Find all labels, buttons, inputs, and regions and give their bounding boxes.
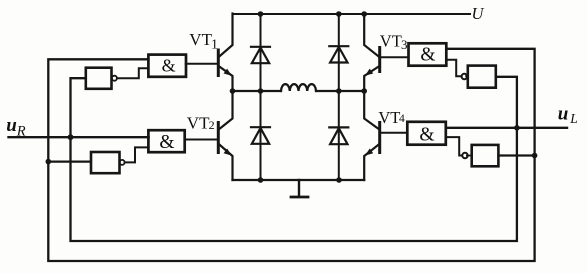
- label VT4: [378, 108, 405, 127]
- wire: top supply rail to U: [233, 13, 471, 15]
- inverter N4 (bottom-right NOT box): [472, 145, 499, 166]
- wire: VT1 emitter to mid rail: [219, 67, 232, 92]
- svg-text:VT: VT: [378, 108, 400, 127]
- svg-text:&: &: [159, 132, 174, 153]
- inverter N1 (top-left NOT box): [86, 68, 112, 89]
- node: bottom rail / VD2: [258, 177, 264, 183]
- node: mid rail / right diodes: [336, 88, 342, 94]
- wire: AND4 output to VT4 base: [381, 132, 408, 134]
- diode VD4 (lower-right): [329, 127, 348, 144]
- AND gate D3 (top-right, "&"): [409, 43, 447, 65]
- wire: AND3 lower input to N3 bubble: [446, 60, 461, 76]
- wire: INV2 input branch: [48, 161, 91, 163]
- VT3 emitter arrow: [365, 69, 373, 76]
- label VT2: [187, 113, 215, 132]
- wire: right diode column: [338, 14, 340, 180]
- AND gate D2 (bottom-left, "&"): [148, 130, 184, 152]
- node: top rail / VD3: [336, 11, 342, 17]
- node: uR to inner loop junction: [68, 134, 74, 140]
- node: top rail / VD1: [258, 11, 264, 17]
- node: mid rail / VT3-VT4: [361, 88, 367, 94]
- svg-text:u: u: [558, 103, 569, 124]
- wire: VT2 emitter to bottom rail: [219, 145, 232, 181]
- inverter N3 (top-right NOT box): [468, 66, 496, 88]
- wire: outer control loop (AND1 in / INV2 in / INV4 in / AND3 in): [48, 49, 534, 261]
- node: mid rail / left diodes: [258, 88, 264, 94]
- svg-text:u: u: [6, 115, 17, 136]
- svg-text:4: 4: [399, 113, 405, 125]
- svg-text:3: 3: [401, 37, 408, 52]
- label VT3: [380, 32, 408, 52]
- inverter N3 output bubble: [462, 74, 467, 79]
- wire: VT3 collector to top rail: [364, 14, 379, 57]
- ground: [291, 180, 308, 197]
- wire: VT4 collector to mid rail: [364, 91, 379, 129]
- inverter N2 (bottom-left NOT box): [91, 152, 120, 173]
- inverter N4 output bubble: [462, 153, 467, 158]
- node: outer loop to INV2 junction: [46, 159, 52, 165]
- inverter N2 output bubble: [120, 160, 125, 165]
- wire: VT1 collector to top rail: [219, 14, 232, 57]
- label uL: [558, 103, 578, 126]
- transistor VT1 base bar: [217, 50, 220, 76]
- node: outer loop to INV4 junction: [532, 153, 538, 159]
- svg-text:2: 2: [209, 118, 215, 132]
- diode VD1 (upper-left): [251, 47, 270, 63]
- inductor L (load coil): [281, 84, 316, 91]
- svg-text:&: &: [419, 124, 434, 145]
- wire: N4 bubble stub: [467, 155, 472, 157]
- svg-text:&: &: [162, 56, 176, 76]
- label VT1: [189, 30, 218, 52]
- wire: inner control loop (INV1 in / uR / uL / INV3 in): [71, 77, 517, 241]
- wire: N3 bubble stub: [466, 75, 468, 77]
- svg-text:VT: VT: [189, 30, 212, 49]
- VT4 emitter arrow: [365, 149, 373, 156]
- VT2 emitter arrow: [224, 149, 232, 156]
- VT1 emitter arrow: [224, 69, 232, 76]
- diode VD2 (lower-left): [251, 127, 270, 144]
- svg-text:VT: VT: [380, 32, 402, 51]
- node: mid rail / VT1-VT2: [230, 88, 236, 94]
- svg-text:1: 1: [211, 38, 218, 53]
- node: uL to inner loop junction: [514, 125, 520, 131]
- AND gate D4 (bottom-right, "&"): [407, 122, 446, 145]
- wire: bottom rail: [233, 179, 365, 181]
- wire: AND2 output to VT2 base: [185, 139, 218, 141]
- wire: mid rail right segment: [316, 90, 364, 92]
- wire: VT2 collector to mid rail: [219, 91, 232, 129]
- wire: VT4 emitter to bottom rail: [364, 145, 379, 181]
- transistor VT4 base bar: [378, 123, 381, 153]
- AND gate D1 (top-left, "&"): [148, 55, 186, 77]
- wire: AND1 output to VT1 base: [186, 63, 218, 65]
- wire: AND3 output to VT3 base: [381, 56, 409, 58]
- svg-text:U: U: [472, 4, 485, 23]
- wire: AND4 lower input to N4 bubble: [446, 137, 462, 155]
- svg-text:&: &: [420, 45, 435, 66]
- wire: mid rail left segment: [233, 90, 282, 92]
- node: bottom rail / VD4: [336, 177, 342, 183]
- wire: INV4 input branch: [498, 154, 534, 156]
- svg-text:R: R: [16, 123, 26, 139]
- transistor VT2 base bar: [217, 123, 220, 153]
- wire: N2 output to AND2 lower input: [125, 147, 149, 162]
- wire: VT3 emitter to mid rail: [364, 67, 379, 92]
- wire: uL output line: [446, 127, 567, 129]
- svg-text:VT: VT: [187, 113, 210, 132]
- wire: uR input line: [9, 136, 149, 138]
- wire: N1 output to AND1 lower input: [117, 68, 148, 78]
- inverter N1 output bubble: [112, 76, 117, 81]
- label uR: [6, 115, 26, 139]
- diode VD3 (upper-right): [329, 46, 348, 62]
- wire: left diode column: [260, 14, 262, 180]
- node: top rail / VT3 collector: [361, 11, 367, 17]
- svg-text:L: L: [569, 111, 578, 126]
- transistor VT3 base bar: [378, 48, 381, 72]
